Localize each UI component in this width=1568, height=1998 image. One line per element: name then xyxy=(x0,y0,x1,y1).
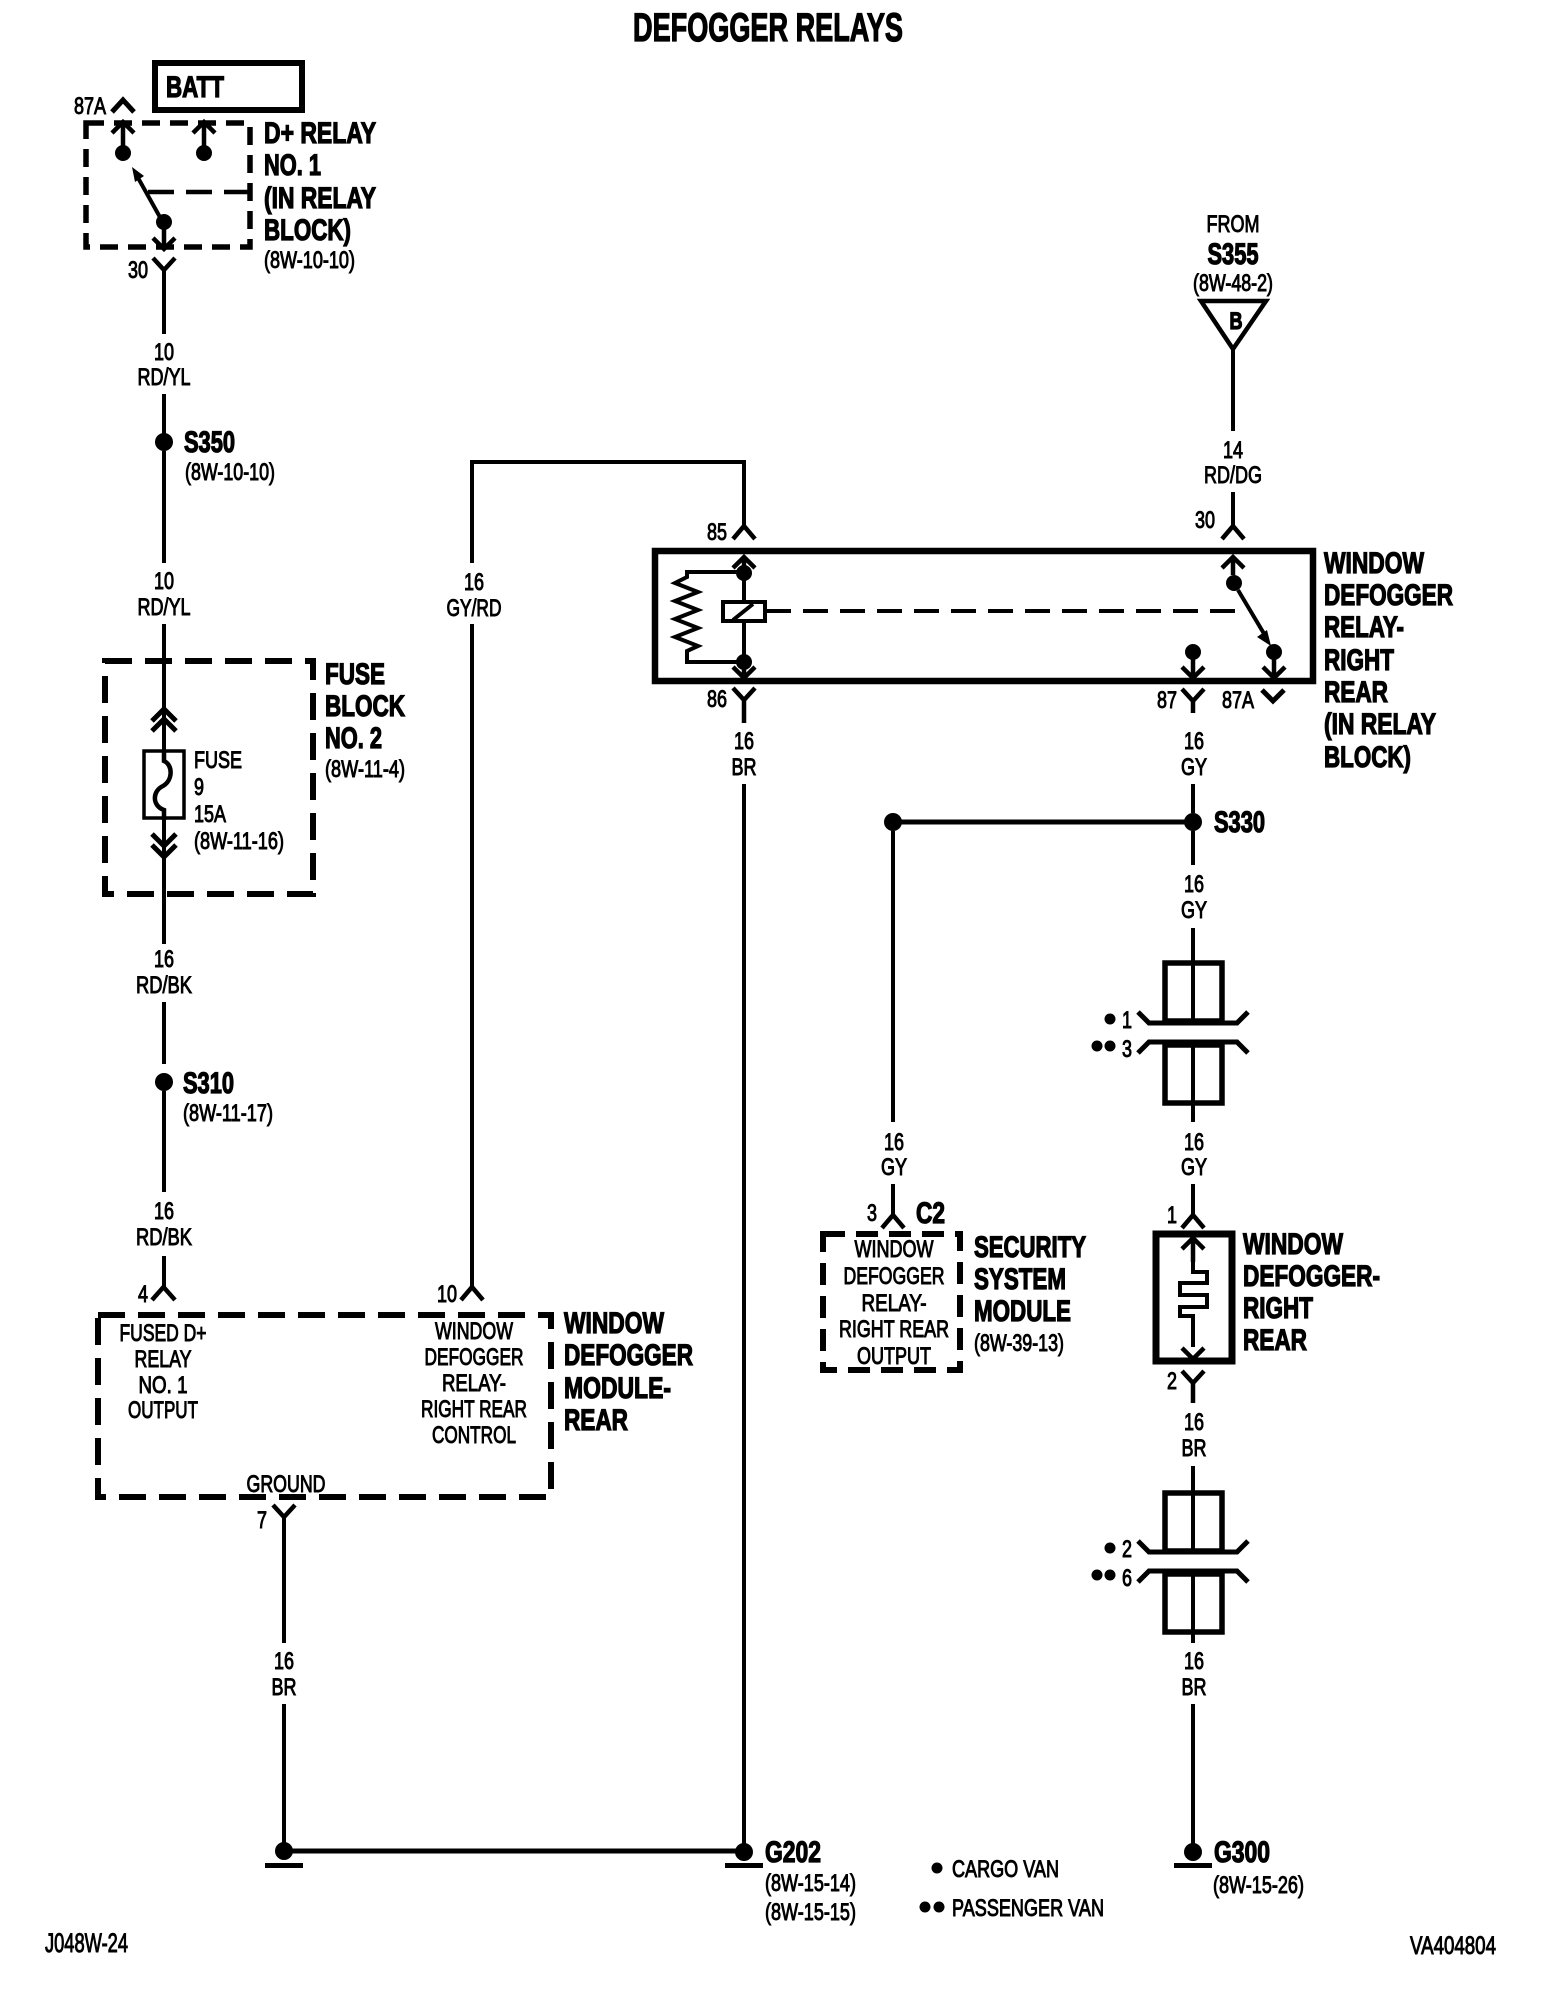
wire 16 GY/RD control run xyxy=(472,462,744,563)
svg-text:FUSED D+: FUSED D+ xyxy=(120,1320,207,1347)
svg-text:16: 16 xyxy=(274,1648,294,1675)
wire xyxy=(162,1091,166,1192)
svg-text:CARGO VAN: CARGO VAN xyxy=(952,1856,1059,1883)
splice S350 xyxy=(155,433,173,451)
relay D+ RELAY NO.1 dashed outline xyxy=(86,123,250,247)
wire xyxy=(1191,1466,1195,1490)
svg-text:REAR: REAR xyxy=(1324,676,1388,709)
svg-text:16: 16 xyxy=(884,1129,904,1156)
svg-text:3: 3 xyxy=(1122,1036,1132,1063)
splice S310 xyxy=(155,1073,173,1091)
svg-text:87A: 87A xyxy=(1222,687,1254,714)
svg-text:BLOCK): BLOCK) xyxy=(264,214,351,247)
svg-text:GY: GY xyxy=(1181,754,1207,781)
ground terminal (module) xyxy=(275,1842,293,1860)
ground G202 xyxy=(735,1843,753,1861)
connector fork pin 2 xyxy=(1182,1371,1204,1403)
relay control dashed link xyxy=(766,609,1245,613)
svg-text:OUTPUT: OUTPUT xyxy=(857,1343,931,1370)
connector fork pin 7 (ground) xyxy=(273,1505,295,1517)
svg-text:DEFOGGER: DEFOGGER xyxy=(1324,579,1453,612)
connector fork pin 30 xyxy=(1222,526,1244,539)
wire 14 RD/DG xyxy=(1231,349,1235,431)
svg-text:87A: 87A xyxy=(74,93,106,120)
svg-text:(8W-15-15): (8W-15-15) xyxy=(765,1899,856,1926)
fuse element S-curve xyxy=(155,750,171,820)
svg-text:DEFOGGER: DEFOGGER xyxy=(425,1344,524,1371)
svg-text:RD/BK: RD/BK xyxy=(136,1224,192,1251)
svg-text:DEFOGGER-: DEFOGGER- xyxy=(1243,1260,1380,1293)
svg-text:S310: S310 xyxy=(183,1067,234,1100)
svg-text:GY/RD: GY/RD xyxy=(447,595,502,622)
svg-text:SECURITY: SECURITY xyxy=(974,1231,1086,1264)
wire 10 RD/YL from D+ relay pin 30 xyxy=(162,270,166,334)
connector cavity labels 2 / 6 xyxy=(1105,1543,1116,1554)
svg-text:FROM: FROM xyxy=(1207,211,1260,238)
svg-text:(8W-11-17): (8W-11-17) xyxy=(183,1100,273,1127)
svg-text:(8W-48-2): (8W-48-2) xyxy=(1193,270,1273,297)
svg-text:FUSE: FUSE xyxy=(325,658,385,691)
svg-text:S355: S355 xyxy=(1208,238,1259,271)
svg-text:16: 16 xyxy=(1184,1129,1204,1156)
wire xyxy=(282,1704,286,1851)
svg-text:SYSTEM: SYSTEM xyxy=(974,1263,1066,1296)
connector fork pin 4 xyxy=(152,1287,175,1300)
connector fork pin 3 (C2) xyxy=(882,1215,904,1228)
svg-text:RIGHT REAR: RIGHT REAR xyxy=(839,1316,949,1343)
svg-text:MODULE-: MODULE- xyxy=(564,1372,671,1405)
contact dot 87A + arrow xyxy=(1266,644,1282,660)
svg-text:16: 16 xyxy=(734,728,754,755)
wire xyxy=(162,1002,166,1064)
svg-text:4: 4 xyxy=(138,1281,148,1308)
svg-text:WINDOW: WINDOW xyxy=(564,1307,665,1340)
svg-text:J048W-24: J048W-24 xyxy=(45,1928,128,1958)
svg-text:GY: GY xyxy=(1181,1154,1207,1181)
wire down to module pin 10 xyxy=(470,624,474,1287)
svg-text:2: 2 xyxy=(1167,1368,1177,1395)
svg-text:D+ RELAY: D+ RELAY xyxy=(264,117,376,150)
pin 86 arrow xyxy=(733,662,755,678)
svg-text:1: 1 xyxy=(1122,1007,1132,1034)
wire into fuse block xyxy=(162,624,166,750)
connector fork pin 87 xyxy=(1182,689,1204,713)
svg-text:87: 87 xyxy=(1157,687,1177,714)
wire to G300 xyxy=(1191,1704,1195,1851)
svg-text:(8W-10-10): (8W-10-10) xyxy=(185,459,275,486)
svg-text:S350: S350 xyxy=(184,426,235,459)
svg-text:16: 16 xyxy=(154,1198,174,1225)
svg-text:30: 30 xyxy=(1195,507,1215,534)
svg-text:30: 30 xyxy=(128,257,148,284)
ground bus wire xyxy=(284,1849,744,1854)
svg-text:(8W-10-10): (8W-10-10) xyxy=(264,247,355,274)
coil bottom dot xyxy=(736,654,752,670)
pin 1 arrow xyxy=(1182,1238,1204,1262)
svg-text:NO. 1: NO. 1 xyxy=(139,1372,188,1399)
svg-text:RIGHT: RIGHT xyxy=(1243,1292,1313,1325)
terminal pin (BATT side) arrow + contact dot xyxy=(193,122,215,152)
wire 16 BR to G202 xyxy=(742,784,746,1851)
svg-text:10: 10 xyxy=(154,568,174,595)
pin 30 arrow (D+ relay) xyxy=(153,222,175,249)
pin 30 arrow + pivot dot xyxy=(1222,557,1244,575)
heater grid element xyxy=(1180,1262,1207,1347)
wire xyxy=(1231,492,1235,527)
svg-text:15A: 15A xyxy=(194,801,226,828)
svg-text:DEFOGGER: DEFOGGER xyxy=(564,1339,693,1372)
svg-text:MODULE: MODULE xyxy=(974,1295,1071,1328)
svg-text:RD/DG: RD/DG xyxy=(1204,462,1262,489)
connector fork pin 10 xyxy=(461,1287,483,1300)
wire xyxy=(1191,831,1195,865)
svg-text:RELAY-: RELAY- xyxy=(862,1290,927,1317)
svg-text:BR: BR xyxy=(272,1674,297,1701)
svg-text:GROUND: GROUND xyxy=(247,1471,326,1498)
pass-through chevrons (top) xyxy=(152,709,176,721)
svg-text:(8W-39-13): (8W-39-13) xyxy=(974,1330,1064,1357)
connector cavity labels 1 / 3 xyxy=(1105,1014,1116,1025)
in-line connector (upper half) xyxy=(1165,1493,1222,1551)
svg-text:RD/YL: RD/YL xyxy=(138,594,191,621)
svg-text:GY: GY xyxy=(1181,897,1207,924)
svg-text:CONTROL: CONTROL xyxy=(432,1422,516,1449)
svg-text:RELAY-: RELAY- xyxy=(1324,611,1404,644)
svg-text:(IN RELAY: (IN RELAY xyxy=(1324,708,1436,741)
svg-text:16: 16 xyxy=(1184,871,1204,898)
svg-text:RELAY: RELAY xyxy=(135,1346,192,1373)
svg-text:PASSENGER VAN: PASSENGER VAN xyxy=(952,1895,1104,1922)
svg-text:RD/BK: RD/BK xyxy=(136,972,192,999)
connector fork pin 86 xyxy=(733,688,755,723)
internal dashed divider (D+ relay) xyxy=(148,190,250,195)
svg-text:14: 14 xyxy=(1223,437,1243,464)
svg-text:NO. 1: NO. 1 xyxy=(264,149,321,182)
wire xyxy=(1191,1184,1195,1215)
pin 2 arrow xyxy=(1182,1348,1204,1359)
splice S330 xyxy=(1184,813,1202,831)
svg-text:DEFOGGER: DEFOGGER xyxy=(844,1263,945,1290)
svg-text:REAR: REAR xyxy=(564,1404,628,1437)
svg-text:16: 16 xyxy=(1184,1409,1204,1436)
ground G300 xyxy=(1184,1843,1202,1861)
svg-text:VA404804: VA404804 xyxy=(1410,1932,1496,1960)
svg-text:10: 10 xyxy=(154,339,174,366)
wire xyxy=(162,1256,166,1287)
svg-text:(8W-11-4): (8W-11-4) xyxy=(325,756,405,783)
connector chevron 87A (unused) xyxy=(1262,690,1284,701)
svg-text:(8W-15-14): (8W-15-14) xyxy=(765,1870,856,1897)
connector chevron 87A (unused terminal) xyxy=(112,100,134,112)
svg-text:WINDOW: WINDOW xyxy=(1324,547,1425,580)
branch wire to security module xyxy=(893,820,1193,825)
svg-text:1: 1 xyxy=(1167,1202,1177,1229)
svg-text:16: 16 xyxy=(1184,1648,1204,1675)
svg-text:3: 3 xyxy=(867,1200,877,1227)
svg-text:WINDOW: WINDOW xyxy=(435,1318,513,1345)
module SECURITY SYSTEM MODULE dashed outline xyxy=(823,1234,960,1370)
pin 85 arrow + coil dot xyxy=(733,557,755,573)
svg-text:BR: BR xyxy=(1182,1435,1207,1462)
wire 16 BR ground xyxy=(282,1517,286,1643)
coil box symbol xyxy=(723,602,765,621)
svg-text:C2: C2 xyxy=(916,1197,945,1230)
contact dot 87 + arrow xyxy=(1185,644,1201,660)
wire xyxy=(891,1184,895,1215)
connector fork pin 85 xyxy=(733,526,755,539)
svg-text:BR: BR xyxy=(1182,1674,1207,1701)
legend PASSENGER VAN xyxy=(920,1902,931,1913)
svg-text:9: 9 xyxy=(194,774,204,801)
svg-text:WINDOW: WINDOW xyxy=(1243,1228,1344,1261)
svg-text:B: B xyxy=(1230,308,1243,335)
svg-text:DEFOGGER RELAYS: DEFOGGER RELAYS xyxy=(633,6,903,50)
svg-text:RD/YL: RD/YL xyxy=(138,364,191,391)
fuse block no.2 dashed outline xyxy=(105,661,313,894)
svg-text:BLOCK: BLOCK xyxy=(325,690,405,723)
connector fork pin 30 (D+ relay) xyxy=(153,258,175,270)
svg-text:RIGHT: RIGHT xyxy=(1324,644,1394,677)
power feed box BATT xyxy=(155,63,302,110)
in-line connector (lower half) xyxy=(1138,1571,1248,1582)
svg-text:RELAY-: RELAY- xyxy=(442,1370,506,1397)
fuse F9 15A body xyxy=(144,751,184,818)
in-line connector (lower half) xyxy=(1138,1042,1248,1053)
svg-text:NO. 2: NO. 2 xyxy=(325,722,382,755)
terminal pin 87A arrow + contact dot xyxy=(112,122,134,152)
svg-text:REAR: REAR xyxy=(1243,1324,1307,1357)
svg-text:BR: BR xyxy=(732,754,757,781)
module WINDOW DEFOGGER MODULE-REAR dashed outline xyxy=(98,1315,551,1497)
svg-text:BATT: BATT xyxy=(166,71,224,104)
svg-text:OUTPUT: OUTPUT xyxy=(128,1397,198,1424)
svg-text:2: 2 xyxy=(1122,1536,1132,1563)
svg-text:S330: S330 xyxy=(1214,806,1265,839)
svg-text:16: 16 xyxy=(1184,728,1204,755)
wire through fuse block bottom xyxy=(162,820,166,944)
svg-text:(8W-11-16): (8W-11-16) xyxy=(194,828,284,855)
wire xyxy=(162,451,166,563)
svg-text:10: 10 xyxy=(437,1281,457,1308)
wire xyxy=(1191,784,1195,813)
switch armature (D+ relay) xyxy=(137,176,161,219)
relay WINDOW DEFOGGER RELAY-RIGHT REAR outline xyxy=(655,551,1313,681)
svg-text:86: 86 xyxy=(707,686,727,713)
off-page connector triangle B xyxy=(1201,301,1266,349)
wire xyxy=(162,394,166,434)
svg-text:FUSE: FUSE xyxy=(194,747,242,774)
svg-text:RIGHT REAR: RIGHT REAR xyxy=(421,1396,527,1423)
svg-text:16: 16 xyxy=(464,569,484,596)
connector fork pin 1 xyxy=(1182,1215,1204,1228)
pass-through chevrons (bottom) xyxy=(152,834,176,846)
in-line connector (upper half) xyxy=(1165,963,1222,1021)
svg-text:7: 7 xyxy=(257,1507,267,1534)
legend CARGO VAN xyxy=(932,1863,943,1874)
svg-text:G300: G300 xyxy=(1214,1836,1270,1869)
svg-text:16: 16 xyxy=(154,946,174,973)
common contact dot (D+ relay pin 30) xyxy=(156,214,172,230)
svg-text:6: 6 xyxy=(1122,1565,1132,1592)
load WINDOW DEFOGGER-RIGHT REAR outline xyxy=(1156,1234,1232,1361)
relay coil resistor + winding xyxy=(675,572,744,662)
svg-text:85: 85 xyxy=(707,519,727,546)
switch armature (main relay) xyxy=(1238,590,1266,637)
svg-text:BLOCK): BLOCK) xyxy=(1324,741,1411,774)
svg-text:(8W-15-26): (8W-15-26) xyxy=(1213,1872,1304,1899)
svg-text:(IN RELAY: (IN RELAY xyxy=(264,182,376,215)
svg-text:WINDOW: WINDOW xyxy=(855,1236,934,1263)
svg-text:GY: GY xyxy=(881,1154,907,1181)
svg-text:G202: G202 xyxy=(765,1836,821,1869)
